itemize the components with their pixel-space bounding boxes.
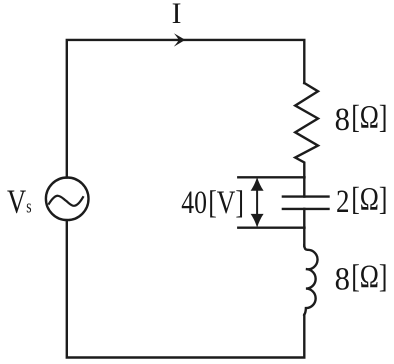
svg-text:8: 8 <box>335 101 350 137</box>
svg-text:[Ω]: [Ω] <box>351 100 387 136</box>
svg-text:V: V <box>7 183 26 221</box>
svg-text:2: 2 <box>336 182 350 219</box>
svg-text:40[V]: 40[V] <box>181 185 244 221</box>
svg-text:[Ω]: [Ω] <box>351 182 387 218</box>
svg-text:8: 8 <box>335 260 350 296</box>
svg-text:s: s <box>26 195 31 217</box>
svg-text:[Ω]: [Ω] <box>351 259 387 295</box>
svg-text:I: I <box>172 0 182 30</box>
